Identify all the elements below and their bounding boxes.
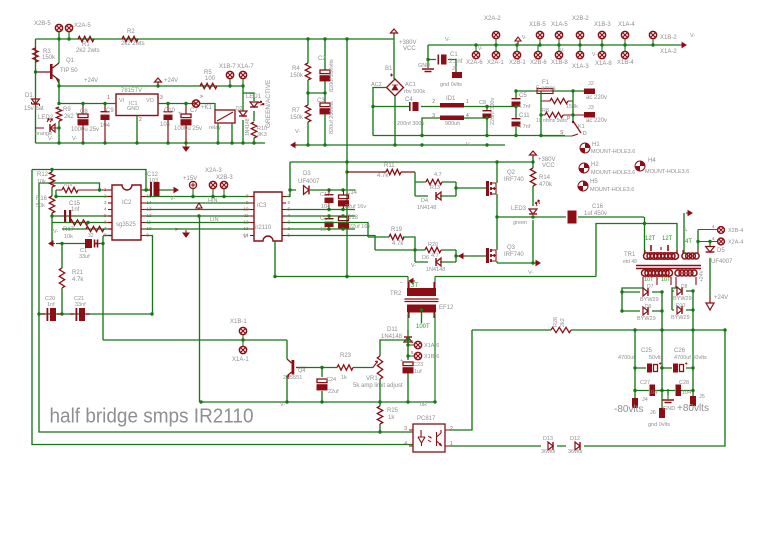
connector X2B-4 <box>698 227 724 234</box>
connector X1A-8 bottom <box>598 45 605 59</box>
vminus arrow row10 <box>183 230 189 237</box>
wire R13 row <box>415 172 456 196</box>
junction r14 <box>531 160 534 218</box>
svg-text:3: 3 <box>160 95 163 101</box>
diode LED1 <box>250 100 265 107</box>
svg-text:V-: V- <box>478 46 483 52</box>
svg-text:C3: C3 <box>317 98 325 104</box>
resistor R4 <box>305 63 310 80</box>
svg-text:1000u 25v: 1000u 25v <box>174 126 202 132</box>
wire IC1 input <box>59 103 116 105</box>
svg-text:4: 4 <box>404 441 407 447</box>
svg-text:V-: V- <box>445 37 450 43</box>
svg-text:green: green <box>513 220 527 226</box>
wire V- rail mid <box>295 144 505 146</box>
wire Q3 source <box>497 261 533 263</box>
svg-text:4T: 4T <box>685 239 692 245</box>
wire rail 402 <box>200 216 436 402</box>
resistor R12 <box>49 172 54 187</box>
svg-text:H4: H4 <box>648 158 656 164</box>
svg-text:R26: R26 <box>553 317 559 327</box>
capacitor C12 <box>150 182 160 197</box>
svg-text:R19: R19 <box>391 227 403 233</box>
wire c24 col <box>321 368 323 403</box>
svg-text:D4: D4 <box>421 198 428 204</box>
wire C1 row <box>428 45 456 72</box>
wire TR2 center tap <box>421 313 423 324</box>
arrow V- rail left <box>291 143 297 148</box>
vminus +24 arrow <box>706 296 714 310</box>
transformer TR1 core <box>636 266 701 269</box>
junction q2 gate <box>454 186 457 189</box>
wire tr1 4t up <box>683 213 685 253</box>
junction divider <box>306 37 326 146</box>
svg-text:12T: 12T <box>645 236 656 242</box>
svg-text:D13: D13 <box>543 436 553 442</box>
svg-text:BYW29: BYW29 <box>640 297 659 303</box>
wire c17 top row <box>286 215 355 217</box>
capacitor C27 <box>650 385 656 397</box>
svg-text:820uf 200vlts: 820uf 200vlts <box>329 101 335 134</box>
junction pin16 <box>144 188 147 191</box>
svg-text:104: 104 <box>682 390 691 396</box>
resistor R1 <box>78 36 94 41</box>
svg-text:X2B-4: X2B-4 <box>728 228 743 234</box>
wire d5 col <box>698 230 710 297</box>
svg-text:MOUNT-HOLE3.6: MOUNT-HOLE3.6 <box>645 169 689 175</box>
svg-text:C8: C8 <box>479 100 486 106</box>
svg-text:R7: R7 <box>292 108 300 114</box>
svg-text:4700uf 50vlts: 4700uf 50vlts <box>674 355 707 361</box>
wire pin6 row <box>52 222 112 224</box>
svg-text:X1A-3: X1A-3 <box>572 64 589 70</box>
svg-text:6: 6 <box>411 339 414 344</box>
svg-text:LED3: LED3 <box>511 206 527 212</box>
wire xb1 row <box>103 339 287 341</box>
wire pin16 row <box>141 189 172 191</box>
capacitor C7 <box>181 104 192 144</box>
svg-text:MOUNT-HOLE3.6: MOUNT-HOLE3.6 <box>590 187 634 193</box>
svg-text:>: > <box>175 227 178 233</box>
resistor R7 <box>305 105 310 122</box>
connector X2B-5 <box>55 24 62 39</box>
wire vr1 top <box>380 330 408 356</box>
svg-text:UF4007: UF4007 <box>298 179 320 185</box>
svg-text:H2: H2 <box>591 162 599 168</box>
connector X2B-2 top <box>576 31 583 45</box>
svg-text:1N4148: 1N4148 <box>245 118 251 136</box>
svg-text:104: 104 <box>100 123 111 129</box>
wire C20 rail <box>39 313 153 315</box>
svg-text:V-: V- <box>170 196 175 202</box>
wire c26 row <box>662 367 693 369</box>
resistor R22 <box>86 226 104 231</box>
svg-text:AC1: AC1 <box>405 82 416 88</box>
svg-text:Q4: Q4 <box>298 368 305 374</box>
wire section top <box>32 170 146 191</box>
svg-text:V-: V- <box>280 402 285 408</box>
svg-text:J1: J1 <box>452 66 458 72</box>
svg-text:+: + <box>178 111 182 117</box>
svg-text:IRF740: IRF740 <box>504 177 524 183</box>
connector J2 <box>584 89 595 95</box>
svg-text:7815TV: 7815TV <box>121 88 142 94</box>
svg-text:4.7k: 4.7k <box>72 277 84 283</box>
capacitor C3 <box>320 103 330 107</box>
svg-text:+K1: +K1 <box>201 105 213 111</box>
wire ID1 row2 <box>422 118 487 136</box>
junction ID1 <box>371 105 488 137</box>
svg-text:1N4148: 1N4148 <box>417 205 436 211</box>
wire LIN row <box>145 222 250 224</box>
capacitor C21 <box>70 308 90 321</box>
junction X1A-7 col <box>241 84 244 87</box>
capacitor C17 33uf <box>85 239 98 248</box>
wire SD row <box>145 209 250 211</box>
capacitor C15 <box>64 210 71 222</box>
diode D1 15v <box>32 99 40 106</box>
svg-text:1uf 450v: 1uf 450v <box>584 211 607 217</box>
svg-text:C18: C18 <box>347 215 359 221</box>
wire fuse row <box>516 90 584 92</box>
diode D4 <box>436 192 441 200</box>
connector X1B-3 top <box>598 31 605 45</box>
svg-text:X1B-4: X1B-4 <box>617 60 634 66</box>
wire AC bottom rail <box>373 135 565 137</box>
wire C16 to TR1 <box>644 217 646 253</box>
svg-text:R20: R20 <box>428 242 438 248</box>
optocoupler PC817 <box>409 424 449 452</box>
junction d5 <box>696 240 711 243</box>
wire col R4 top <box>307 39 309 63</box>
diode D6 <box>436 258 441 266</box>
wire outer left frame <box>32 170 413 445</box>
svg-text:150k: 150k <box>290 115 304 121</box>
wire C8b column <box>486 107 488 136</box>
resistor R14 <box>530 168 535 186</box>
svg-text:VCC: VCC <box>403 46 416 52</box>
capacitor C1 <box>438 55 447 65</box>
wire B1 left <box>373 88 387 136</box>
svg-text:15v bat: 15v bat <box>24 106 44 112</box>
capacitor C4 <box>409 102 419 111</box>
resistor R9 <box>56 107 61 121</box>
diode D12 <box>575 442 580 450</box>
svg-text:C10: C10 <box>164 108 176 114</box>
junction V- rail <box>393 143 488 146</box>
capacitor C8 220nf <box>483 110 492 118</box>
transistor Q1 <box>36 63 60 82</box>
wire Q3 gate <box>456 255 486 257</box>
svg-text:22uf 16v: 22uf 16v <box>349 224 370 230</box>
svg-text:X1A-2: X1A-2 <box>660 49 677 55</box>
resistor R26 <box>551 327 571 332</box>
wire col C2 <box>324 39 326 145</box>
wire V- row pin15 <box>145 196 250 198</box>
junction vr1 d11 <box>406 338 409 341</box>
svg-text:4: 4 <box>712 236 715 241</box>
svg-text:J3: J3 <box>588 105 594 111</box>
wire pin9 down <box>145 236 153 315</box>
capacitor C26 <box>673 364 678 373</box>
svg-text:GND: GND <box>418 63 430 69</box>
svg-text:X1A-7: X1A-7 <box>237 64 254 70</box>
wire c17 bot row <box>286 228 355 230</box>
wire q4 emitter <box>286 376 288 402</box>
junction d7 col <box>620 289 694 312</box>
resistor R13 <box>426 179 442 184</box>
svg-text:X2A-3: X2A-3 <box>205 168 222 174</box>
svg-text:GND: GND <box>127 106 139 112</box>
svg-text:900uh: 900uh <box>445 121 460 127</box>
wire c25 row <box>635 367 662 369</box>
connector X2A-1 bottom <box>492 45 499 59</box>
svg-text:X1B-6: X1B-6 <box>424 354 439 360</box>
connector X1A-6 <box>408 341 422 348</box>
wire q4 collector <box>286 340 288 359</box>
resistor R21 <box>59 268 64 288</box>
capacitor C8 <box>78 104 89 144</box>
wire X1A-7 col <box>242 86 244 143</box>
svg-text:V-: V- <box>690 33 695 39</box>
fuse F1 <box>537 89 553 94</box>
wire R19 row <box>368 237 415 250</box>
svg-text:GND: GND <box>663 406 675 412</box>
svg-text:X2A-6: X2A-6 <box>466 60 483 66</box>
svg-text:5: 5 <box>411 350 414 355</box>
wire pin7 up <box>286 162 290 197</box>
diode D11 <box>404 330 412 355</box>
svg-text:3K3: 3K3 <box>257 132 267 138</box>
wire IC1 gnd pin <box>136 116 138 144</box>
svg-text:2: 2 <box>432 99 435 105</box>
junction r21 <box>60 242 63 316</box>
resistor R2 <box>122 36 138 41</box>
svg-text:33uf: 33uf <box>79 254 90 260</box>
connector X1B-4 bottom <box>621 45 628 59</box>
svg-text:rbv 500k: rbv 500k <box>404 89 425 95</box>
svg-text:V-: V- <box>48 136 53 142</box>
svg-text:+24V: +24V <box>699 270 705 282</box>
connector J1 <box>452 72 462 78</box>
svg-text:2.2nf: 2.2nf <box>449 59 463 65</box>
svg-text:3T: 3T <box>411 283 418 289</box>
junction C5 top <box>514 89 517 137</box>
svg-text:10k: 10k <box>64 234 73 240</box>
supply +15V symbol <box>189 181 196 196</box>
svg-text:LIN: LIN <box>210 217 219 223</box>
wire B1 bottom to V- <box>394 96 396 145</box>
svg-text:etd 48: etd 48 <box>623 259 637 265</box>
junction c20 rail <box>37 312 40 315</box>
junctions gnd rail <box>57 141 255 144</box>
junction v276 <box>273 275 348 278</box>
wire pc817 right1 <box>449 330 725 446</box>
resistor R3 <box>33 48 38 62</box>
resistor R5 <box>200 83 217 88</box>
ic IC2 right pins <box>141 190 145 236</box>
junction c17 <box>101 242 104 245</box>
resistor R8 10ohm <box>541 112 584 117</box>
svg-text:X1B-3: X1B-3 <box>594 22 611 28</box>
svg-text:X2A-2: X2A-2 <box>484 16 501 22</box>
mount hole H5 <box>578 181 588 191</box>
svg-text:R4: R4 <box>292 66 300 72</box>
junction c16 jog <box>643 222 646 225</box>
svg-text:V-: V- <box>466 142 471 148</box>
mount hole H1 <box>580 143 590 153</box>
capacitor C14 <box>338 190 349 210</box>
wire out col right <box>692 291 694 403</box>
junction R12 top <box>50 168 53 171</box>
svg-text:X1B-8: X1B-8 <box>551 60 568 66</box>
wire Q3 drain <box>496 217 498 250</box>
junction c24 top <box>320 366 323 369</box>
arrow q3 gate <box>459 254 465 259</box>
junction rail330 <box>633 328 726 331</box>
junction c15 row <box>50 214 89 224</box>
junction q3 gate <box>413 248 457 257</box>
svg-text:4.7: 4.7 <box>434 172 442 178</box>
svg-text:X2B-2: X2B-2 <box>572 16 589 22</box>
svg-text:VR1: VR1 <box>366 376 378 382</box>
svg-text:D9: D9 <box>645 304 652 310</box>
svg-text:D6: D6 <box>422 255 429 261</box>
svg-text:R23: R23 <box>340 353 352 359</box>
svg-text:50vlts: 50vlts <box>649 355 664 361</box>
junction LED2 <box>57 126 60 129</box>
svg-text:150k: 150k <box>42 55 56 61</box>
svg-text:half bridge smps IR2110: half bridge smps IR2110 <box>50 405 254 428</box>
svg-text:100T: 100T <box>416 324 430 330</box>
svg-text:C28: C28 <box>679 380 689 386</box>
svg-text:+80vlts: +80vlts <box>677 403 709 414</box>
capacitor C9 <box>101 104 110 144</box>
supply arrow on bus <box>515 37 521 45</box>
diode D10 <box>677 306 682 314</box>
svg-text:X1B-1: X1B-1 <box>230 319 247 325</box>
junction q2 drain <box>495 160 498 163</box>
svg-text:4.7k: 4.7k <box>392 241 404 247</box>
connector +K1 pad <box>192 100 199 107</box>
junction 347 <box>345 37 348 278</box>
junction boot mid <box>327 208 344 211</box>
junction c18 <box>327 214 344 230</box>
diode D13 <box>548 442 553 450</box>
svg-text:3: 3 <box>404 426 407 432</box>
svg-text:+15V: +15V <box>183 176 197 182</box>
supply SD arrow <box>196 203 202 210</box>
wire D3 row <box>290 189 355 191</box>
wire Q2 source <box>496 194 498 217</box>
connector X2A-4 <box>698 238 724 245</box>
junction top rail <box>57 37 70 40</box>
svg-text:gnd 0vlts: gnd 0vlts <box>648 422 670 428</box>
svg-text:C2: C2 <box>318 56 326 62</box>
svg-text:LED1: LED1 <box>246 94 262 100</box>
wire K1 col <box>541 91 573 136</box>
junction sd <box>197 214 200 217</box>
wire output rail <box>472 329 725 331</box>
svg-text:Q1: Q1 <box>66 58 75 64</box>
svg-text:2k2: 2k2 <box>64 114 74 120</box>
svg-text:X1A-1: X1A-1 <box>232 357 249 363</box>
transformer TR2 <box>405 277 439 403</box>
wire C5 column <box>515 91 517 136</box>
wire pin8 jog <box>103 235 112 237</box>
arrow tr1 4t <box>686 211 692 216</box>
resistor R20 <box>425 247 441 252</box>
wire sec right col <box>672 285 676 310</box>
transformer TR1 secondary <box>642 270 698 285</box>
svg-text:10k: 10k <box>37 179 46 185</box>
arrow tr2 pol <box>409 279 415 284</box>
capacitor C17b <box>325 216 334 229</box>
svg-text:C9: C9 <box>106 108 114 114</box>
connector X1A-5 top <box>555 31 562 45</box>
svg-text:1nf: 1nf <box>71 207 80 213</box>
svg-text:H1: H1 <box>592 142 600 148</box>
svg-text:33nf: 33nf <box>75 302 86 308</box>
svg-text:100: 100 <box>205 76 216 82</box>
arrow q3 source <box>534 261 540 266</box>
svg-text:BYW29: BYW29 <box>637 316 656 322</box>
svg-text:D1: D1 <box>25 93 33 99</box>
svg-text:MOUNT-HOLE3.6: MOUNT-HOLE3.6 <box>591 170 635 176</box>
svg-text:BYW29: BYW29 <box>673 296 692 302</box>
wire pin5 row <box>52 215 112 217</box>
junction X1B-7 <box>228 84 231 87</box>
svg-text:EF12: EF12 <box>439 305 454 311</box>
junction pin9 <box>150 312 153 315</box>
wire row pin10 <box>145 228 250 230</box>
svg-text:IC3: IC3 <box>257 203 267 209</box>
svg-text:5k amp limit adjust: 5k amp limit adjust <box>353 383 403 389</box>
svg-text:X1A-5: X1A-5 <box>551 22 568 28</box>
svg-text:C26: C26 <box>674 348 686 354</box>
diode D5 <box>706 247 715 253</box>
svg-text:X1A-6: X1A-6 <box>424 343 439 349</box>
svg-text:820uf 200vlts: 820uf 200vlts <box>329 59 335 92</box>
svg-text:D3: D3 <box>303 171 311 177</box>
wire out col left <box>634 330 636 405</box>
wire +380 column <box>346 39 348 277</box>
svg-text:200nf 300v: 200nf 300v <box>397 121 424 127</box>
svg-text:ac 220v: ac 220v <box>586 95 607 101</box>
junction K1 <box>539 89 574 137</box>
wire R12 col <box>51 170 53 244</box>
connector X2A-2 top <box>492 31 499 45</box>
svg-text:+24V: +24V <box>164 78 178 84</box>
svg-text:D2: D2 <box>236 106 243 112</box>
svg-text:220nf 300v: 220nf 300v <box>490 98 496 125</box>
wire Q2 drain <box>496 162 498 183</box>
relay K1 box <box>215 110 235 123</box>
connector X1B-5 top <box>536 31 543 45</box>
svg-text:R13: R13 <box>430 185 440 191</box>
svg-text:+24V: +24V <box>714 295 728 301</box>
supply +380V right <box>530 151 537 158</box>
svg-text:V-: V- <box>560 48 565 54</box>
svg-text:150k: 150k <box>566 104 578 110</box>
svg-text:32: 32 <box>88 233 94 239</box>
wire q4 base row <box>297 367 373 369</box>
junction +24 supply <box>156 84 159 87</box>
svg-text:2: 2 <box>139 117 142 123</box>
svg-text:+: + <box>400 358 403 364</box>
resistor R11 <box>347 169 415 174</box>
svg-text:36vlts: 36vlts <box>541 449 556 455</box>
